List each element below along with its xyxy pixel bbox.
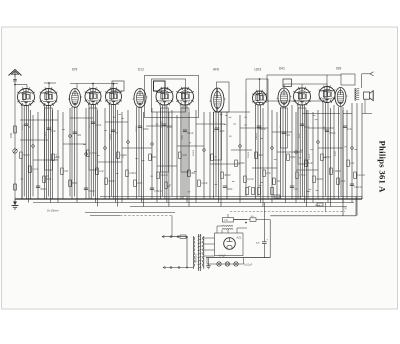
tube V6 bbox=[176, 87, 194, 105]
bus wire 5 short bbox=[85, 212, 175, 214]
ground symbol left bbox=[14, 199, 16, 206]
wire bundle under tube at x=217.5 bbox=[213, 112, 215, 199]
wire bundle under tube at x=75 bbox=[71, 107, 73, 199]
svg-text:0,5mF: 0,5mF bbox=[329, 133, 336, 135]
wire antenna to V1 grid bbox=[15, 84, 27, 86]
junction to dial lamp line bbox=[325, 203, 327, 212]
svg-text:AZ1: AZ1 bbox=[237, 236, 242, 240]
tube V8 AF amp bbox=[293, 87, 311, 105]
volume potentiometer on antenna line bbox=[13, 149, 17, 153]
dashed dial cord bbox=[230, 211, 345, 213]
antenna coupling capacitor bbox=[13, 79, 17, 81]
mains lead upper bbox=[162, 236, 187, 238]
oscillator can D12 outer box bbox=[145, 76, 199, 118]
svg-text:0,5mF: 0,5mF bbox=[299, 175, 306, 177]
svg-text:40000: 40000 bbox=[224, 175, 231, 177]
rectifier tube AZ1 bbox=[224, 238, 236, 250]
transformer secondary taps bbox=[204, 237, 215, 239]
svg-text:ONDOLIT: ONDOLIT bbox=[196, 253, 198, 263]
series box on rail 3 bbox=[317, 203, 323, 206]
svg-text:14mmF: 14mmF bbox=[256, 132, 258, 140]
bus wire (HT rail thin) bbox=[100, 196, 362, 198]
svg-text:4000: 4000 bbox=[258, 155, 264, 157]
output transformer winding bbox=[354, 88, 356, 101]
svg-text:1mF: 1mF bbox=[308, 163, 313, 165]
rail inside D41 bbox=[284, 83, 327, 85]
svg-text:2000: 2000 bbox=[227, 189, 233, 191]
svg-text:LS: LS bbox=[225, 219, 228, 222]
svg-text:0,05mF: 0,05mF bbox=[161, 120, 163, 128]
svg-text:30000: 30000 bbox=[108, 181, 115, 183]
top rail over band filter 679 bbox=[70, 83, 118, 85]
svg-text:50000: 50000 bbox=[238, 163, 245, 165]
detector can D41 inner box bbox=[283, 79, 292, 87]
svg-text:25000: 25000 bbox=[136, 125, 138, 132]
svg-text:25000: 25000 bbox=[88, 191, 95, 193]
junction dots bbox=[14, 84, 16, 86]
svg-text:4000: 4000 bbox=[335, 150, 337, 156]
oscillator can D12 core box bbox=[154, 81, 166, 91]
resistors and capacitors (values as shown) bbox=[20, 152, 23, 159]
power transformer T1 bbox=[193, 236, 195, 269]
wire bundle under tube at x=164.5 bbox=[160, 105, 162, 199]
top rail 1203 bbox=[246, 78, 268, 80]
svg-text:929: 929 bbox=[336, 67, 342, 71]
svg-text:0,1mF: 0,1mF bbox=[187, 133, 194, 135]
wire bundle under tube at x=327 bbox=[322, 103, 324, 199]
svg-text:0,05mF: 0,05mF bbox=[154, 191, 162, 193]
svg-text:2mF: 2mF bbox=[266, 173, 271, 175]
tube V2 bbox=[40, 87, 58, 105]
svg-text:50000: 50000 bbox=[23, 155, 30, 157]
svg-text:0,05mF: 0,05mF bbox=[129, 173, 137, 175]
dial cord left run bbox=[90, 215, 120, 217]
oscillator can D12 inner box bbox=[152, 79, 186, 112]
svg-text:2000: 2000 bbox=[137, 183, 143, 185]
tube V1 RF amp bbox=[17, 87, 35, 105]
ground symbol power bbox=[208, 258, 210, 266]
bus wire 3 bbox=[33, 202, 354, 204]
wire choke to right vertical bbox=[256, 219, 270, 221]
wire bundle under tube at x=26 bbox=[21, 105, 23, 199]
tube E4 bbox=[277, 88, 292, 107]
interstage vertical wires bbox=[21, 158, 23, 199]
coil form under E4 bbox=[281, 108, 288, 148]
svg-text:8+8µF: 8+8µF bbox=[219, 255, 226, 257]
bus wire (chassis, thick) bbox=[15, 198, 362, 200]
svg-text:0,2mF: 0,2mF bbox=[201, 183, 208, 185]
svg-text:5000: 5000 bbox=[290, 157, 296, 159]
mains lead lower bbox=[163, 267, 194, 269]
svg-text:40000: 40000 bbox=[193, 149, 195, 156]
svg-text:D12: D12 bbox=[138, 68, 144, 72]
tube V7 bbox=[252, 90, 267, 106]
wire bundle under tube at x=340.5 bbox=[338, 107, 340, 199]
svg-text:4000: 4000 bbox=[46, 179, 52, 181]
svg-text:30000: 30000 bbox=[110, 133, 112, 140]
tube V9 bbox=[319, 85, 336, 103]
svg-text:5000: 5000 bbox=[72, 183, 78, 185]
svg-text:Philips 361 A: Philips 361 A bbox=[378, 141, 388, 194]
series resistor 100 box bbox=[234, 219, 251, 221]
wire bundle under tube at x=259.5 bbox=[255, 105, 257, 199]
filter chokes bbox=[222, 225, 224, 226]
svg-text:0,2mF: 0,2mF bbox=[95, 125, 102, 127]
bus wire 6 bbox=[270, 215, 356, 217]
svg-text:1mF: 1mF bbox=[89, 123, 91, 128]
svg-text:AF8: AF8 bbox=[213, 68, 219, 72]
svg-text:8mF: 8mF bbox=[182, 155, 187, 157]
svg-text:8mF: 8mF bbox=[299, 133, 301, 138]
horizontal interconnect wires bbox=[20, 119, 58, 121]
PSU bottom bus bbox=[206, 257, 270, 259]
svg-text:14mmF: 14mmF bbox=[357, 175, 365, 177]
wire choke area bbox=[227, 214, 229, 218]
svg-text:0,2mF: 0,2mF bbox=[56, 153, 58, 160]
tube V5 IF amp bbox=[156, 87, 174, 105]
wire bundle under tube at x=93 bbox=[88, 104, 90, 199]
wire bundle under tube at x=48.5 bbox=[44, 105, 46, 199]
svg-text:14mmF: 14mmF bbox=[160, 175, 168, 177]
rectifier box bbox=[215, 233, 244, 256]
svg-text:0,1mF: 0,1mF bbox=[247, 179, 254, 181]
coil form under V5 bbox=[161, 108, 169, 172]
svg-text:5000: 5000 bbox=[22, 124, 24, 130]
svg-text:1mF: 1mF bbox=[347, 129, 352, 131]
coil form under E3 bbox=[214, 112, 222, 160]
shield can top over V4 bbox=[112, 81, 124, 91]
tube V4 mixer bbox=[105, 87, 122, 105]
tube V3 bbox=[85, 87, 102, 105]
wire top rail over V2 bbox=[44, 82, 56, 84]
svg-text:50000: 50000 bbox=[166, 127, 173, 129]
svg-text:50000: 50000 bbox=[248, 151, 250, 158]
series box on HT rail bbox=[274, 195, 280, 198]
coil form under V3 bbox=[89, 108, 97, 170]
wire bundle under tube at x=140 bbox=[136, 107, 138, 199]
wire D41 to 929 bbox=[327, 74, 341, 76]
coil form under V6 bbox=[181, 108, 189, 172]
svg-text:30000: 30000 bbox=[40, 189, 47, 191]
svg-text:1203: 1203 bbox=[254, 68, 261, 72]
tube E1 band filter bbox=[68, 89, 82, 108]
dial lamps bbox=[207, 263, 244, 265]
svg-text:30000: 30000 bbox=[316, 179, 323, 181]
smoothing choke LS box bbox=[223, 218, 234, 223]
svg-text:14mmF: 14mmF bbox=[354, 187, 362, 189]
svg-text:2000: 2000 bbox=[182, 134, 184, 140]
bus wire 4 bbox=[130, 206, 347, 208]
svg-text:1mF: 1mF bbox=[99, 171, 104, 173]
svg-text:0,1mF: 0,1mF bbox=[309, 153, 311, 160]
svg-text:40000: 40000 bbox=[142, 129, 149, 131]
tube E3 detector bbox=[210, 88, 226, 112]
svg-text:2000: 2000 bbox=[340, 181, 346, 183]
tube E2 oscillator coil bbox=[133, 89, 148, 108]
svg-text:0,5mF: 0,5mF bbox=[90, 153, 97, 155]
svg-text:679: 679 bbox=[72, 68, 78, 72]
electrolytic 8uF on wire bbox=[262, 241, 267, 243]
svg-text:D41: D41 bbox=[279, 67, 285, 71]
coil form under V8 bbox=[298, 108, 306, 164]
svg-text:0,1mF: 0,1mF bbox=[32, 169, 39, 171]
wire bundle under tube at x=185 bbox=[180, 105, 182, 199]
tube E5 output bbox=[334, 88, 348, 107]
resistor on antenna lead bbox=[14, 126, 17, 133]
svg-text:0,05mF: 0,05mF bbox=[333, 171, 341, 173]
pickup connector top right bbox=[362, 73, 370, 75]
can 929 box bbox=[341, 74, 355, 85]
antenna bbox=[9, 70, 22, 76]
IF coil form under V2 bbox=[45, 108, 53, 170]
mains wire vertical bbox=[186, 237, 188, 268]
wire bundle under tube at x=284 bbox=[280, 107, 282, 199]
svg-text:1551: 1551 bbox=[10, 132, 13, 138]
svg-text:Dr-Zähne: Dr-Zähne bbox=[47, 209, 59, 213]
svg-text:8µF: 8µF bbox=[256, 242, 260, 244]
loudspeaker LS bbox=[364, 92, 370, 99]
svg-text:5000: 5000 bbox=[304, 127, 310, 129]
wire bundle under tube at x=113.5 bbox=[109, 104, 111, 199]
svg-text:0,5mF: 0,5mF bbox=[45, 131, 47, 138]
wire rect box top bbox=[221, 230, 223, 233]
mains fuse bbox=[180, 235, 186, 238]
svg-text:2mF: 2mF bbox=[261, 129, 266, 131]
svg-text:2x0,1µF: 2x0,1µF bbox=[244, 265, 253, 267]
trimmer capacitors bbox=[32, 145, 35, 148]
electrolytic row bbox=[246, 188, 249, 195]
wire lamps left stub bbox=[206, 258, 208, 264]
IF can over E3 bbox=[217, 82, 230, 112]
detector can D41 box bbox=[267, 75, 327, 101]
svg-text:8mF: 8mF bbox=[51, 131, 56, 133]
grid tick marks bbox=[97, 155, 100, 157]
speaker wires bbox=[364, 99, 366, 113]
wire bundle under tube at x=302 bbox=[297, 105, 299, 199]
svg-text:4000: 4000 bbox=[219, 131, 225, 133]
